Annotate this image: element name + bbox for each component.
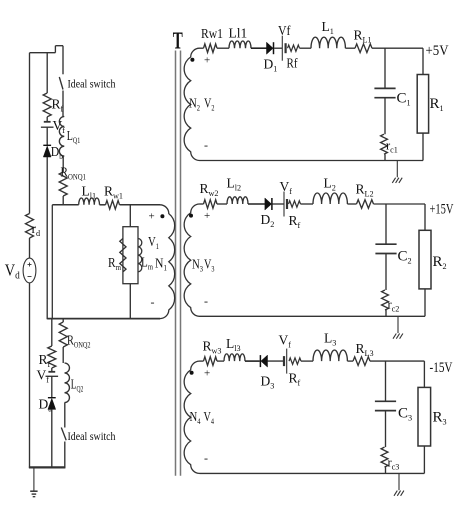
wire between rd and Vd [29, 238, 31, 258]
wire Db to node C [46, 157, 48, 319]
load resistor R3 [418, 387, 431, 446]
inductor Ll2 [227, 197, 248, 204]
wire winding to Rw [200, 47, 204, 49]
wire Vf to Db [46, 127, 48, 145]
wire D to Vf [268, 360, 285, 362]
wire Ll to D [251, 47, 267, 49]
resistor Rf upper [43, 93, 51, 117]
svg-text:Rw1: Rw1 [201, 26, 223, 41]
ground stub left [33, 467, 35, 490]
wire Da to bottom [51, 409, 53, 468]
ideal switch Q1 blade [59, 77, 63, 90]
diode Da [48, 398, 56, 409]
resistor rc1 [381, 134, 388, 154]
wire rc to bottom [385, 310, 387, 316]
branch Rf Vf Db (upper clamp) [46, 53, 48, 93]
capacitor branch wire [384, 48, 386, 88]
svg-text:Ll1: Ll1 [229, 26, 248, 41]
wire RL to output rail [374, 203, 426, 205]
inductor LQ2 [65, 363, 70, 403]
resistor Rf [289, 358, 301, 364]
load resistor R2 [419, 230, 431, 289]
svg-text:+: + [204, 54, 210, 66]
node B top edge of primary box [52, 204, 78, 206]
wire LQ2 to switch Q2 [64, 403, 66, 428]
node to magnetizing branch [129, 205, 131, 227]
resistor Rf [289, 201, 301, 207]
bottom wire [200, 315, 426, 317]
wire L to RL [347, 360, 353, 362]
primary dot [160, 214, 164, 218]
resistor RL1 [355, 44, 372, 53]
svg-text:-: - [204, 294, 208, 308]
ground symbol (hatch) [394, 491, 397, 496]
diode D1 [267, 42, 274, 54]
wire top input [30, 52, 56, 54]
svg-text:+15V: +15V [430, 202, 454, 218]
bottom return wire [29, 466, 66, 468]
wire load to bottom [422, 133, 424, 160]
source Vf (battery) [286, 349, 288, 374]
wire L to RL [347, 203, 356, 205]
svg-text:+: + [149, 211, 155, 223]
inductor L3 [313, 350, 347, 361]
inductor LQ1 [59, 117, 64, 157]
resistor Rw1 primary [106, 201, 120, 210]
winding dot [189, 214, 193, 218]
winding dot [190, 371, 194, 375]
svg-text:+5V: +5V [426, 43, 449, 59]
wire left rail top [29, 53, 31, 214]
box bottom edge [47, 318, 160, 320]
wire winding to Rw [200, 203, 204, 205]
ground symbol (hatch) [392, 178, 395, 183]
resistor Rw2 [204, 200, 218, 209]
resistor rc2 [382, 290, 389, 310]
source Vd [23, 258, 36, 283]
resistor Rw3 [204, 357, 218, 366]
svg-text:+: + [204, 210, 210, 222]
output rail down to load [422, 48, 424, 74]
magnetizing sub-box [123, 227, 138, 284]
resistor Rw1 [204, 44, 218, 53]
wire C to rc [385, 411, 387, 448]
inductor L1 [311, 37, 345, 48]
wire rc to bottom [384, 154, 386, 160]
secondary winding N4 [184, 361, 199, 473]
resistor RL2 [357, 200, 374, 209]
wire D to Vf [274, 47, 282, 49]
winding dot [190, 58, 194, 62]
diode D2 [265, 198, 272, 210]
inductor Ll1 primary [79, 198, 100, 205]
ground symbol (hatch) [393, 334, 396, 339]
wire Ll to D [245, 360, 260, 362]
inductor L2 [313, 193, 347, 204]
wire left rail bottom [29, 283, 31, 468]
source Vf lower (battery) [51, 368, 53, 372]
wire Rf to L [300, 47, 312, 49]
svg-text:-: - [204, 451, 208, 465]
svg-text:Ideal switch: Ideal switch [68, 429, 116, 443]
wire RONQ2 to LQ2 [62, 347, 64, 363]
wire switch to LQ1 [62, 91, 64, 117]
inductor Ll3 [224, 354, 245, 361]
capacitor C3 [375, 400, 396, 402]
wire Rw1 to primary winding [120, 204, 161, 206]
wire switch Q2 to bottom [64, 442, 66, 469]
svg-text:-: - [151, 295, 155, 309]
wire Vf to Da [51, 376, 53, 397]
wire Rw to Ll [217, 203, 227, 205]
wire load to bottom [424, 289, 426, 316]
wire winding to Rw [200, 360, 204, 362]
capacitor branch wire [385, 204, 387, 244]
resistor RL3 [353, 357, 370, 366]
capacitor C2 [375, 243, 396, 245]
wire Rf to L [301, 360, 313, 362]
wire Rw to Ll [217, 47, 229, 49]
diode Db [43, 146, 51, 157]
capacitor branch wire [385, 361, 387, 401]
source Vf (battery) [283, 192, 285, 217]
box left edge [51, 205, 53, 319]
ground stub [398, 473, 400, 490]
diode D3 [261, 355, 268, 367]
svg-text:+: + [204, 367, 210, 379]
ground stub [397, 316, 399, 333]
resistor Rf [288, 45, 300, 51]
bottom wire [200, 472, 425, 474]
resistor RONQ2 [62, 319, 64, 322]
resistor RONQ1 [59, 172, 67, 196]
wire RONQ1 to node B [62, 196, 64, 205]
wire L to RL [345, 47, 355, 49]
svg-text:-: - [204, 138, 208, 152]
output rail down to load [424, 204, 426, 230]
output rail down to load [423, 361, 425, 387]
wire Rf to L [301, 203, 314, 205]
wire load to bottom [423, 446, 425, 473]
resistor rc3 [381, 447, 388, 467]
wire C to rc [384, 98, 386, 135]
resistor Rf lower [48, 346, 56, 368]
svg-text:Rf: Rf [287, 56, 298, 71]
capacitor C1 [374, 87, 395, 89]
load resistor R1 [417, 75, 428, 134]
resistor Rm [120, 239, 126, 272]
secondary winding N2 [184, 48, 199, 160]
wire Ll1 to Rw1 [100, 204, 106, 206]
inductor Lm [138, 239, 142, 272]
svg-text:Ideal switch: Ideal switch [68, 77, 116, 91]
wire LQ1 to RONQ1 [62, 156, 64, 172]
svg-text:Vf: Vf [278, 23, 291, 38]
wire D to Vf [273, 203, 285, 205]
wire rc to bottom [385, 467, 387, 473]
source Vf (battery) [281, 36, 283, 61]
branch Rf Vf Da (lower clamp) [51, 319, 53, 346]
transformer core [175, 51, 177, 476]
primary winding N1 [160, 205, 175, 319]
secondary winding N3 [184, 204, 199, 316]
wire RL to output rail [372, 47, 423, 49]
wire Ll to D [248, 203, 265, 205]
svg-text:T: T [173, 29, 183, 55]
ideal switch Q2 blade [61, 428, 66, 441]
wire RL to output rail [370, 360, 424, 362]
bottom wire [200, 160, 424, 162]
source Vf upper (battery) [46, 117, 48, 122]
ground stub [396, 161, 398, 178]
wire magnetizing branch to bottom edge [129, 284, 131, 319]
svg-text:-15V: -15V [430, 360, 453, 376]
wire C to rc [385, 254, 387, 291]
ground symbol left (bars) [30, 490, 37, 492]
wire Rw to Ll [217, 360, 224, 362]
resistor rd [26, 214, 34, 239]
inductor Ll1 [229, 41, 251, 48]
